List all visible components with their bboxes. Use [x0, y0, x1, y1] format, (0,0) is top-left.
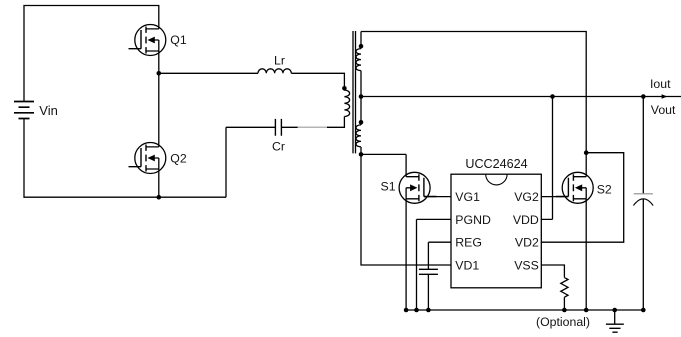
svg-text:Iout: Iout — [650, 77, 671, 91]
svg-text:PGND: PGND — [455, 213, 491, 227]
svg-text:VDD: VDD — [513, 213, 539, 227]
svg-text:Vin: Vin — [39, 103, 58, 118]
svg-text:(Optional): (Optional) — [536, 315, 590, 329]
svg-text:Q2: Q2 — [170, 151, 187, 165]
svg-text:Cr: Cr — [272, 140, 285, 154]
svg-text:Vout: Vout — [651, 103, 676, 117]
svg-text:Q1: Q1 — [170, 33, 187, 47]
svg-text:REG: REG — [455, 236, 482, 250]
svg-text:VD1: VD1 — [455, 259, 479, 273]
svg-text:VD2: VD2 — [515, 236, 539, 250]
svg-text:S1: S1 — [381, 180, 396, 194]
svg-text:VSS: VSS — [514, 259, 539, 273]
svg-text:VG1: VG1 — [455, 190, 480, 204]
svg-text:S2: S2 — [597, 183, 612, 197]
svg-text:Lr: Lr — [274, 54, 285, 68]
svg-text:VG2: VG2 — [514, 190, 539, 204]
svg-text:UCC24624: UCC24624 — [465, 157, 527, 171]
